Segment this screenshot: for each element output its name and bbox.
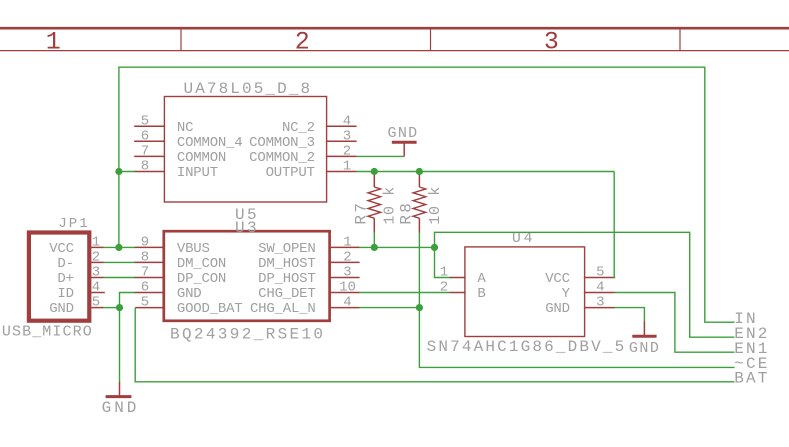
connector JP1 USB_MICRO body (thick box) [29,233,89,321]
svg-text:Y: Y [562,286,571,302]
U5 pin 8 (INPUT) left stub + number + label [134,159,218,182]
junction VBUS / JP1 pin1 / U3 pin9 [115,244,122,251]
svg-text:3: 3 [343,265,351,281]
svg-text:UA78L05_D_8: UA78L05_D_8 [184,80,313,98]
U3 pin 5 (GOOD_BAT) left stub + number + label [135,295,242,318]
svg-text:COMMON_3: COMMON_3 [249,135,315,151]
svg-text:6: 6 [141,128,149,144]
frame divider between columns 3 and 4 [679,27,681,51]
wire ~CE net: R8 column down and right [419,232,734,367]
U3 pin 2 (DM_HOST) right stub + number + label [258,249,359,272]
U4 pin 4 (Y) right stub + number + label [562,280,615,303]
svg-text:5: 5 [596,265,604,281]
svg-text:D-: D- [57,256,73,272]
svg-text:NC: NC [177,120,193,136]
JP1 pin 5 (GND) stub + number + label [49,295,104,318]
U5 pin 2 (COMMON_2) right stub + number + label [249,143,356,166]
wire U4 pin 4 Y to EN1 [614,293,734,353]
wire CHG_DET net: U3 pin 10 to U4 pin 2 B [359,292,450,294]
svg-text:GND: GND [49,301,74,317]
battery charger U3 BQ24392_RSE10 body [164,231,330,321]
wire D+ : JP1 pin 3 to U3 pin 7 [104,277,135,279]
svg-text:10 k: 10 k [382,186,399,224]
svg-text:COMMON_4: COMMON_4 [177,135,243,151]
ground GND (U4 pin 3) [629,321,661,357]
svg-text:3: 3 [343,128,351,144]
svg-text:GND: GND [629,340,661,357]
U4 pin 5 (VCC) right stub + number + label [545,265,615,288]
U5 pin 7 (COMMON) left stub + number + label [134,143,226,166]
svg-text:SN74AHC1G86_DBV_5: SN74AHC1G86_DBV_5 [427,338,627,356]
junction SW_OPEN / EN2 / U4-A branch [431,244,438,251]
XOR gate U4 SN74AHC1G86_DBV_5 body [465,247,585,337]
wire U4 pin 3 to ground [614,308,644,322]
svg-text:5: 5 [141,113,149,129]
svg-text:R7: R7 [352,201,370,225]
svg-text:6: 6 [141,280,149,296]
svg-text:VCC: VCC [49,241,74,257]
svg-text:U3: U3 [235,219,259,237]
ground GND (top, U5 common) [388,125,419,156]
wire VBUS net: stub link U5 pin 8 INPUT [119,171,135,173]
wire VBUS net: JP1 pin 1 to U3 pin 9 [104,246,135,248]
U3 pin 10 (CHG_DET) right stub + number + label [258,280,359,303]
wire SW_OPEN net: U3 pin 1 to junction column [359,246,435,248]
U5 pin 1 (OUTPUT) right stub + number + label [266,159,357,182]
svg-text:COMMON: COMMON [177,150,226,166]
svg-text:JP1: JP1 [58,216,89,232]
frame divider between columns 2 and 3 [430,27,432,51]
U3 pin 1 (SW_OPEN) right stub + number + label [258,234,359,257]
svg-text:4: 4 [596,280,604,296]
svg-text:8: 8 [141,249,149,265]
svg-text:3: 3 [92,265,100,281]
U3 pin 7 (DP_CON) left stub + number + label [134,265,226,288]
svg-text:1: 1 [92,234,100,250]
svg-text:2: 2 [343,143,351,159]
svg-text:8: 8 [141,159,149,175]
junction VBUS / U5 INPUT [115,168,122,175]
svg-text:4: 4 [92,280,100,296]
wire SW_OPEN net: down to U4 pin 1 A [435,247,450,277]
junction OUTPUT / R8 top [416,168,423,175]
svg-text:1: 1 [343,159,351,175]
U5 pin 5 (NC) left stub + number + label [134,113,193,136]
svg-text:BAT: BAT [734,369,769,387]
svg-text:CHG_AL_N: CHG_AL_N [250,301,316,317]
svg-text:9: 9 [141,234,149,250]
U4 pin 3 (GND) right stub + number + label [545,295,615,318]
svg-text:GND: GND [388,125,419,142]
svg-text:4: 4 [343,295,351,311]
wire R7 bottom link to SW_OPEN row [373,232,375,247]
wire VBUS net: top horizontal run [119,66,705,68]
svg-text:COMMON_2: COMMON_2 [249,150,315,166]
JP1 pin 3 (D+) stub + number + label [57,265,103,288]
wire GND net: U3 pin 6 link and vertical to ground [120,293,135,383]
wire OUTPUT net: U5 pin 1 to the right [356,171,614,173]
svg-text:5: 5 [92,295,100,311]
svg-text:DM_CON: DM_CON [177,256,226,272]
svg-text:3: 3 [544,28,559,57]
svg-text:DM_HOST: DM_HOST [258,256,315,272]
junction GND / JP1 pin5 [116,304,123,311]
svg-text:1: 1 [343,234,351,250]
U3 pin 8 (DM_CON) left stub + number + label [134,249,226,272]
ground GND (bottom, JP1/U3) [102,382,140,417]
wire SW_OPEN net: up and right to EN2 drop [435,232,735,337]
junction CHG_AL_N / R8 bottom / ~CE [416,304,423,311]
wire IN net: right vertical down [705,67,735,323]
svg-text:INPUT: INPUT [177,165,218,181]
svg-text:GOOD_BAT: GOOD_BAT [177,301,243,317]
wire CHG_AL_N net: U3 pin 4 to R8 column [359,307,419,309]
junction SW_OPEN / R7 bottom [371,244,378,251]
wire GND net: JP1 pin 5 to junction [104,307,120,309]
svg-text:4: 4 [343,113,351,129]
svg-text:BQ24392_RSE10: BQ24392_RSE10 [170,326,325,344]
svg-text:SW_OPEN: SW_OPEN [258,241,315,257]
svg-text:VCC: VCC [545,271,570,287]
svg-text:D+: D+ [57,271,73,287]
svg-text:OUTPUT: OUTPUT [266,165,315,181]
junction OUTPUT / R7 top [371,168,378,175]
svg-text:10 k: 10 k [427,186,444,224]
svg-text:GND: GND [545,301,570,317]
svg-text:2: 2 [343,249,351,265]
svg-text:A: A [477,271,486,287]
svg-text:B: B [477,286,485,302]
wire OUTPUT net: vertical down to U4 pin 5 VCC [614,172,615,278]
svg-text:2: 2 [92,249,100,265]
svg-text:GND: GND [102,399,140,417]
resistor R8 10 k [397,172,443,233]
svg-text:DP_CON: DP_CON [177,271,226,287]
svg-text:ID: ID [57,286,73,302]
schematic frame top border (thick) [0,27,789,30]
wire VBUS net: left vertical down to JP1 pin 1 row [118,67,120,248]
U5 pin 6 (COMMON_4) left stub + number + label [134,128,242,151]
U3 pin 6 (GND) left stub + number + label [134,280,201,303]
U5 pin 3 (COMMON_3) right stub + number + label [249,128,356,151]
JP1 pin 1 (VCC) stub + number + label [49,234,104,257]
wire BAT net: U3 pin 5 GOOD_BAT down and right to BAT [135,308,734,382]
svg-text:7: 7 [141,265,149,281]
svg-text:7: 7 [141,143,149,159]
U3 pin 4 (CHG_AL_N) right stub + number + label [250,295,360,318]
JP1 pin 2 (D-) stub + number + label [57,249,103,272]
svg-text:NC_2: NC_2 [282,120,315,136]
U5 pin 4 (NC_2) right stub + number + label [282,113,357,136]
JP1 pin 4 (ID) stub + number + label [57,280,104,303]
svg-text:VBUS: VBUS [177,241,210,257]
U4 pin 1 (A) left stub + number + label [440,265,487,288]
U4 pin 2 (B) left stub + number + label [440,280,486,303]
U3 pin 3 (DP_HOST) right stub + number + label [258,265,359,288]
svg-text:DP_HOST: DP_HOST [258,271,315,287]
voltage regulator U5 UA78L05_D_8 body [164,97,326,203]
schematic frame band bottom line [0,50,789,52]
wire from U5 pin 2 COMMON_2 to GND [356,155,404,157]
resistor R7 10 k [352,172,398,233]
frame divider between columns 1 and 2 [180,27,182,51]
svg-text:10: 10 [339,280,356,296]
svg-text:CHG_DET: CHG_DET [258,286,315,302]
wire D- : JP1 pin 2 to U3 pin 8 [104,261,135,263]
svg-text:R8: R8 [397,201,415,225]
svg-text:3: 3 [596,295,604,311]
U3 pin 9 (VBUS) left stub + number + label [134,234,210,257]
svg-text:USB_MICRO: USB_MICRO [2,324,93,341]
svg-text:5: 5 [141,295,149,311]
svg-text:GND: GND [177,286,202,302]
svg-text:2: 2 [295,28,310,57]
svg-text:1: 1 [46,28,61,57]
